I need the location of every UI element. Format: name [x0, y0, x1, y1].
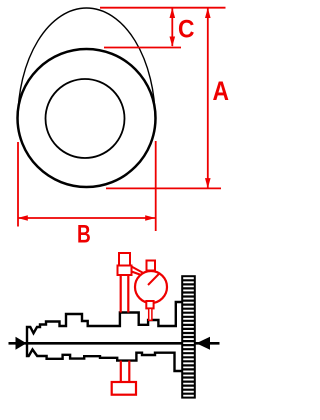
base circle (diameter B) — [18, 49, 156, 187]
center axis line — [9, 342, 220, 345]
support stem right line — [128, 361, 130, 382]
support stem left line — [120, 361, 122, 382]
gear wheel — [182, 276, 195, 397]
svg-text:C: C — [178, 16, 195, 44]
right center arrow — [196, 337, 210, 350]
camshaft body outline — [27, 302, 183, 371]
clamp arm upper line — [132, 267, 147, 275]
dimension C arrow line — [170, 8, 176, 47]
dimension B arrow line — [18, 215, 156, 221]
extension line bottom — [106, 187, 221, 189]
plunger rod — [149, 308, 152, 320]
stand rod left line — [120, 275, 122, 313]
svg-text:B: B — [77, 221, 91, 249]
extension line top (ellipse top) — [100, 7, 226, 9]
stand rod right line — [127, 275, 129, 313]
left center arrow — [16, 337, 27, 350]
dimension A arrow line — [205, 8, 211, 189]
indicator stand clamp block — [118, 266, 132, 276]
extension line right — [155, 141, 157, 231]
plunger block — [146, 301, 153, 308]
dial stem nub — [147, 261, 156, 271]
dial indicator face — [135, 271, 167, 303]
extension line circle top — [104, 47, 181, 49]
support base — [112, 382, 136, 395]
inner bore circle — [46, 79, 125, 158]
indicator stand top knob — [119, 253, 130, 266]
svg-text:A: A — [213, 76, 230, 106]
cam outer profile egg curve — [18, 8, 155, 120]
extension line left — [17, 142, 19, 227]
dial needle — [148, 274, 159, 285]
clamp arm lower line — [132, 272, 143, 276]
